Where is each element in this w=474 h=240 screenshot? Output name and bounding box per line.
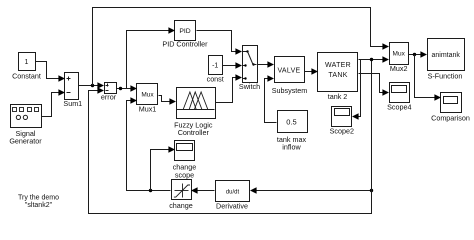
svg-text:Mux1: Mux1	[139, 105, 157, 114]
junction Mux2 out	[413, 53, 416, 56]
wire Signal Generator to Sum1	[42, 93, 60, 117]
wire PID to Switch input 1	[197, 31, 237, 52]
wire tank out B to Scope4	[359, 74, 384, 93]
junction level to derivative	[370, 189, 373, 192]
svg-text:WATER: WATER	[325, 62, 351, 69]
svg-text:Subsystem: Subsystem	[272, 86, 308, 95]
svg-text:Switch: Switch	[239, 82, 260, 91]
wire Switch to VALVE	[258, 64, 269, 66]
block Switch	[239, 46, 260, 91]
svg-text:Try the demo: Try the demo	[18, 194, 59, 201]
wire Sum1 to error	[79, 85, 99, 87]
block Mux2	[390, 43, 409, 74]
svg-text:scope: scope	[175, 170, 194, 179]
svg-text:PID Controller: PID Controller	[162, 39, 208, 48]
svg-text:Generator: Generator	[9, 136, 42, 145]
block Comparison	[431, 93, 470, 123]
block 0.5 tank max inflow	[277, 111, 308, 152]
svg-text:Derivative: Derivative	[216, 201, 248, 210]
svg-text:Comparison: Comparison	[431, 113, 470, 122]
svg-text:1: 1	[25, 59, 29, 66]
block change scope	[173, 141, 197, 180]
wire Mux2 to animtank	[409, 54, 422, 56]
wire Fuzzy Logic Controller to Switch input 3	[216, 78, 237, 103]
svg-text:du/dt: du/dt	[226, 189, 240, 195]
block Constant	[12, 53, 41, 81]
wire Mux1 to Fuzzy Logic Controller	[159, 96, 171, 102]
wire du/dt to change	[197, 190, 215, 192]
block Signal Generator	[9, 105, 42, 146]
svg-text:Mux: Mux	[393, 51, 406, 58]
annotation Try the demo sltank2	[18, 194, 59, 209]
svg-text:Scope4: Scope4	[387, 102, 411, 111]
svg-text:"sltank2": "sltank2"	[25, 202, 53, 209]
wire setpoint feedback to Mux2 over top	[93, 8, 384, 86]
junction level feedback	[370, 58, 373, 61]
svg-text:change: change	[169, 201, 193, 210]
block error (sum)	[101, 83, 117, 102]
block VALVE Subsystem	[272, 57, 308, 95]
wire tank level out to Mux2 input 2	[359, 59, 384, 61]
svg-text:Scope2: Scope2	[330, 127, 354, 136]
svg-text:Controller: Controller	[178, 128, 210, 137]
wire const to Switch input 2	[223, 65, 237, 67]
junction setpoint	[91, 84, 94, 87]
svg-text:Mux: Mux	[141, 91, 154, 98]
wire error to PID Controller	[127, 31, 169, 89]
block Fuzzy Logic Controller	[174, 88, 215, 137]
svg-text:0.5: 0.5	[286, 117, 296, 126]
wire 0.5 to VALVE input 2	[265, 79, 277, 123]
block Scope2	[330, 107, 354, 136]
svg-text:S-Function: S-Function	[428, 72, 463, 81]
block animtank S-Function	[428, 39, 465, 81]
wire error to Mux1	[117, 88, 132, 90]
block Mux1	[137, 84, 158, 114]
wire level feedback bottom return to error	[89, 60, 372, 214]
svg-text:PID: PID	[179, 28, 190, 35]
wire change to change scope	[151, 150, 169, 191]
wire level junction to du/dt	[256, 190, 372, 192]
wire Constant to Sum1	[36, 62, 60, 79]
block change (saturation)	[169, 180, 193, 211]
svg-text:Sum1: Sum1	[63, 99, 82, 108]
wire Mux2 to Comparison	[415, 55, 435, 98]
svg-text:Mux2: Mux2	[390, 64, 408, 73]
svg-text:-1: -1	[212, 62, 218, 69]
block Scope4	[387, 83, 411, 112]
block Sum1	[63, 73, 82, 109]
svg-text:const: const	[207, 74, 224, 83]
svg-text:error: error	[101, 93, 117, 102]
wire VALVE to WATER TANK	[305, 71, 313, 73]
svg-text:VALVE: VALVE	[277, 68, 300, 75]
block du/dt Derivative	[216, 181, 250, 211]
svg-text:inflow: inflow	[282, 142, 301, 151]
junction change out	[149, 189, 152, 192]
wire level to Scope2	[359, 60, 361, 117]
block const -1	[207, 56, 224, 84]
svg-text:TANK: TANK	[328, 72, 347, 79]
svg-text:tank 2: tank 2	[328, 92, 348, 101]
svg-text:animtank: animtank	[431, 52, 460, 59]
svg-text:Constant: Constant	[12, 71, 41, 80]
wire change to Mux1 input 2	[127, 101, 171, 191]
block WATER TANK	[318, 53, 358, 101]
block PID Controller	[162, 21, 208, 49]
junction error out	[119, 87, 122, 90]
